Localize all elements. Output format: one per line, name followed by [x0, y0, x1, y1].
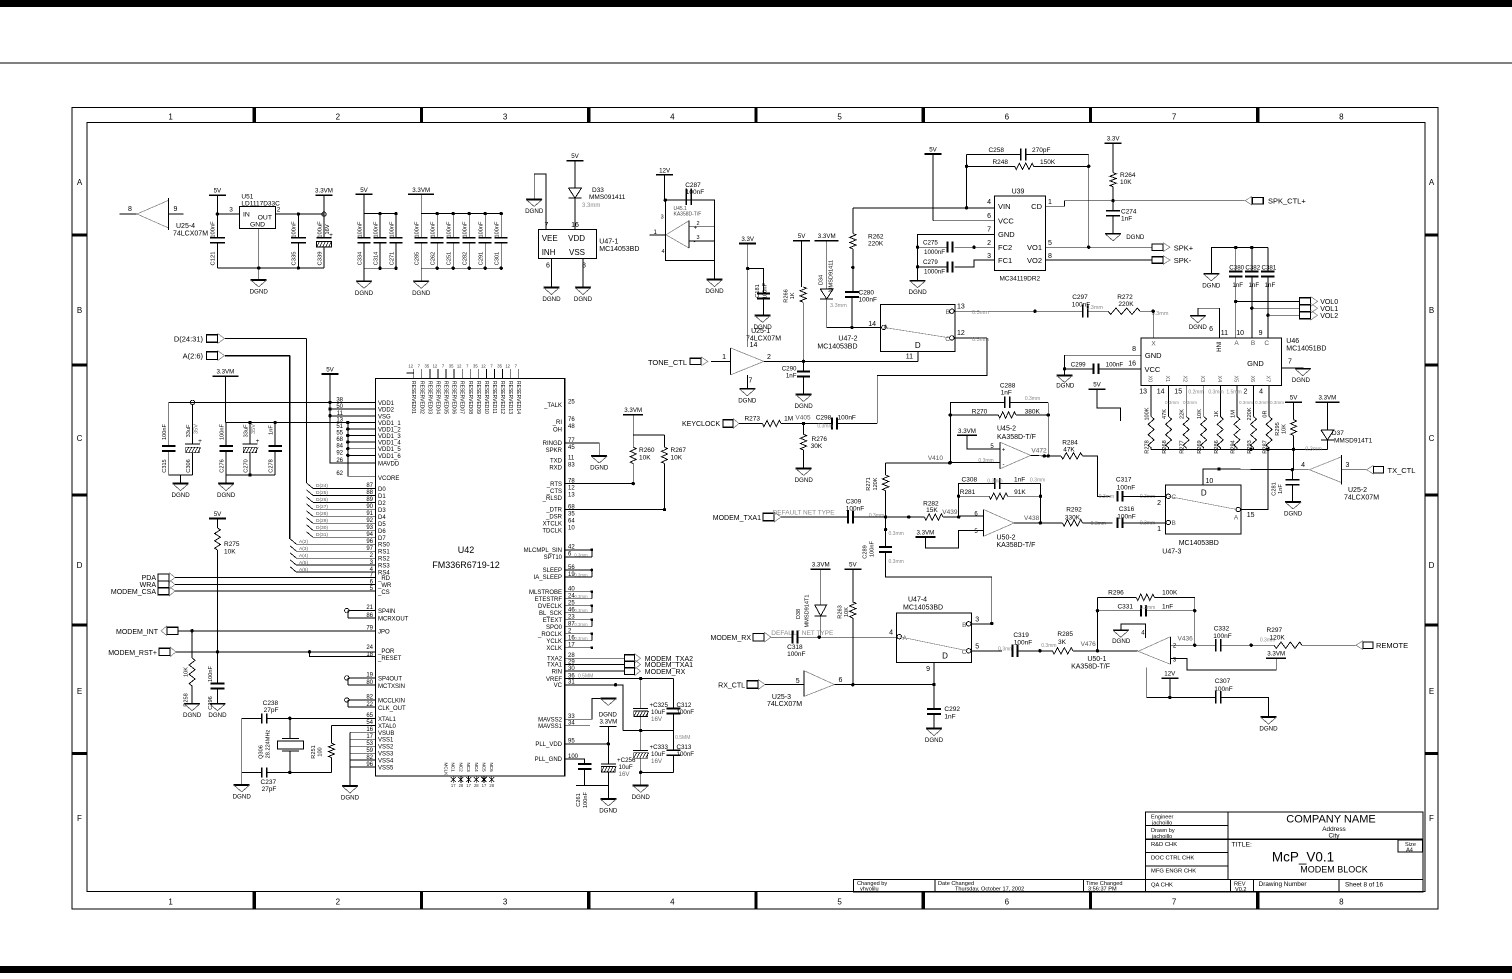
svg-text:3.3VM: 3.3VM: [412, 187, 430, 194]
svg-text:A(3): A(3): [299, 546, 308, 552]
wire: [1267, 315, 1269, 338]
svg-text:VO2: VO2: [1027, 256, 1042, 265]
svg-text:DGND: DGND: [574, 296, 593, 303]
svg-text:270pF: 270pF: [1032, 147, 1050, 154]
svg-text:VCORE: VCORE: [378, 476, 399, 482]
svg-text:R269: R269: [1197, 440, 1203, 453]
svg-text:C271: C271: [390, 252, 396, 265]
svg-text:1nF: 1nF: [786, 373, 797, 380]
svg-text:GND: GND: [1247, 359, 1264, 368]
svg-text:3.3V: 3.3V: [741, 236, 755, 243]
power 5V (R266): [793, 233, 810, 287]
resistor R269 10K: [1197, 386, 1207, 454]
net A(2:6): [183, 351, 290, 539]
svg-text:RESERVED05: RESERVED05: [443, 381, 449, 414]
crystal Q306 28.224MHz: [259, 718, 304, 772]
wire: [1171, 636, 1216, 646]
svg-text:U47-3: U47-3: [1162, 548, 1181, 555]
svg-text:C334: C334: [358, 252, 364, 265]
U42 right stub pins: [524, 545, 594, 652]
wire: [1045, 259, 1152, 261]
svg-text:86: 86: [366, 613, 373, 619]
svg-text:R275: R275: [224, 541, 240, 548]
modem IC U42 FM336R6719-12: [376, 379, 565, 777]
svg-text:1nF: 1nF: [1121, 216, 1132, 223]
svg-text:2: 2: [336, 898, 341, 907]
capacitor C251: [447, 212, 460, 270]
svg-text:C289: C289: [863, 545, 869, 558]
svg-text:33: 33: [568, 714, 575, 720]
wire: [535, 739, 610, 748]
diode D34 MMSD91411: [819, 260, 881, 329]
wire: [275, 207, 324, 215]
svg-text:DGND: DGND: [183, 712, 202, 719]
svg-text:100nF: 100nF: [686, 189, 704, 196]
svg-text:R278: R278: [1145, 440, 1151, 453]
svg-text:C297: C297: [1072, 294, 1088, 301]
wire: [565, 443, 600, 456]
svg-text:D38: D38: [796, 609, 802, 619]
svg-text:Drawing Number: Drawing Number: [1259, 881, 1308, 888]
capacitor C382 1nF: [1245, 246, 1261, 338]
svg-text:DGND: DGND: [1259, 726, 1278, 733]
svg-text:SPK_CTL+: SPK_CTL+: [1268, 197, 1306, 206]
svg-text:DGND: DGND: [1126, 234, 1145, 241]
U42 RESET stub: [310, 652, 402, 662]
svg-text:C331: C331: [1117, 604, 1133, 611]
svg-text:35: 35: [425, 364, 430, 369]
ground DGND (U47-1 pin7): [525, 200, 544, 216]
ground DGND (C296): [208, 704, 227, 720]
diode D37 MMSD914T1: [1305, 430, 1372, 453]
svg-text:11: 11: [568, 455, 575, 461]
svg-text:DGND: DGND: [599, 808, 618, 815]
svg-text:C316: C316: [1119, 506, 1135, 513]
svg-text:X6: X6: [1249, 376, 1255, 383]
svg-text:V476: V476: [1081, 641, 1097, 648]
svg-text:100nF: 100nF: [390, 221, 396, 237]
analog mux U46 MC14051BD: [1128, 338, 1326, 386]
svg-text:VSS5: VSS5: [378, 766, 394, 772]
svg-text:6: 6: [1005, 113, 1010, 122]
wire: [1252, 307, 1300, 309]
svg-text:C287: C287: [685, 182, 701, 189]
wire: [853, 206, 995, 209]
svg-text:51: 51: [336, 424, 343, 430]
svg-text:+: +: [256, 438, 260, 445]
svg-text:RESERVED02: RESERVED02: [418, 381, 424, 414]
svg-text:0.3mm: 0.3mm: [1091, 521, 1106, 527]
svg-text:C121: C121: [211, 252, 217, 266]
capacitor C289 100nF: [863, 517, 994, 625]
svg-text:9: 9: [926, 666, 930, 673]
wire: [552, 666, 625, 675]
capacitor C276 100nF: [219, 423, 233, 476]
svg-text:MC14053BD: MC14053BD: [817, 344, 857, 351]
svg-text:TXD: TXD: [550, 459, 563, 465]
svg-text:SP4IN: SP4IN: [378, 609, 395, 615]
svg-text:U25-3: U25-3: [772, 694, 791, 701]
power 5V (bank1): [356, 187, 373, 214]
net TONE_CTL: [648, 357, 730, 367]
svg-text:SPK-: SPK-: [1174, 256, 1192, 265]
svg-text:100nF: 100nF: [870, 540, 876, 556]
svg-text:R263: R263: [838, 605, 844, 618]
svg-text:47K: 47K: [1063, 447, 1075, 454]
capacitor C262: [431, 212, 444, 270]
svg-text:80: 80: [366, 680, 373, 686]
svg-text:5V: 5V: [1290, 395, 1298, 402]
svg-text:DEFAULT NET TYPE: DEFAULT NET TYPE: [771, 630, 834, 637]
wire: [421, 214, 501, 282]
svg-text:X0: X0: [1147, 376, 1153, 383]
svg-text:TONE_CTL: TONE_CTL: [648, 358, 687, 367]
svg-text:R284: R284: [1062, 439, 1078, 446]
power 3.3VM (U50-1 +in): [1266, 651, 1286, 659]
svg-text:_RLSD: _RLSD: [542, 496, 563, 502]
ground DGND (U46 pin7): [1292, 369, 1311, 384]
svg-text:33uF: 33uF: [244, 424, 250, 437]
svg-text:U25-1: U25-1: [751, 328, 770, 335]
svg-text:COMPANY NAME: COMPANY NAME: [1286, 814, 1375, 826]
svg-text:WRA: WRA: [140, 582, 157, 589]
svg-text:RS0: RS0: [378, 543, 390, 549]
ground DGND (RINGD): [590, 456, 609, 472]
svg-text:1nF: 1nF: [1162, 604, 1173, 611]
svg-text:RESERVED09: RESERVED09: [475, 381, 481, 414]
net MODEM_RX: [711, 630, 834, 642]
svg-text:_RESET: _RESET: [377, 656, 402, 662]
capacitor C314: [374, 212, 387, 270]
svg-text:47K: 47K: [1162, 409, 1168, 419]
svg-text:DGND: DGND: [412, 290, 431, 297]
svg-text:74LCX07M: 74LCX07M: [746, 336, 781, 343]
power 3.3VM (U45-2): [957, 428, 1000, 450]
svg-text:48: 48: [568, 424, 575, 430]
svg-text:GND: GND: [998, 230, 1015, 239]
svg-text:22K: 22K: [1180, 409, 1186, 419]
ground DGND (bank2): [412, 281, 431, 297]
svg-text:NC4: NC4: [474, 763, 479, 773]
svg-text:R264: R264: [1120, 172, 1136, 179]
svg-text:-: -: [1003, 462, 1005, 468]
net SPK+: [1152, 243, 1194, 253]
svg-text:2: 2: [1157, 500, 1161, 507]
svg-text:OH: OH: [553, 428, 562, 434]
svg-text:C: C: [1429, 434, 1435, 443]
svg-text:X1: X1: [1164, 376, 1170, 383]
svg-text:34: 34: [568, 721, 575, 727]
svg-text:0R: 0R: [1263, 410, 1269, 417]
svg-text:RINGD: RINGD: [543, 441, 563, 447]
svg-text:C291: C291: [479, 252, 485, 265]
svg-text:100nF: 100nF: [1214, 686, 1232, 693]
svg-text:3.3VM: 3.3VM: [1267, 651, 1285, 658]
svg-text:C237: C237: [261, 779, 277, 786]
svg-text:VO1: VO1: [1027, 243, 1042, 252]
svg-text:0.5MM: 0.5MM: [675, 735, 690, 741]
svg-text:VDD: VDD: [568, 234, 585, 243]
svg-text:330K: 330K: [1065, 515, 1081, 522]
svg-text:100nF: 100nF: [358, 221, 364, 237]
capacitor C282: [463, 212, 476, 270]
svg-text:10K: 10K: [844, 607, 850, 617]
svg-text:R292: R292: [1066, 507, 1082, 514]
svg-text:5V: 5V: [214, 188, 222, 195]
capacitor C299 100nF: [1063, 362, 1141, 375]
capacitor C331 1nF: [1097, 604, 1194, 617]
svg-text:C306: C306: [186, 459, 192, 472]
svg-text:0.3mm: 0.3mm: [889, 531, 904, 537]
svg-text:D(26): D(26): [316, 497, 328, 503]
svg-text:3: 3: [987, 253, 991, 260]
svg-text:5V: 5V: [360, 187, 368, 194]
svg-text:100nF: 100nF: [859, 297, 877, 304]
svg-text:82: 82: [366, 695, 373, 701]
power 3.3V (R264): [1105, 136, 1122, 173]
svg-text:NC5: NC5: [482, 763, 487, 773]
resistor R251 100: [311, 725, 335, 772]
svg-text:17: 17: [466, 783, 471, 788]
svg-text:15: 15: [1247, 512, 1255, 519]
svg-text:1K: 1K: [790, 292, 796, 299]
svg-text:RS2: RS2: [378, 557, 390, 563]
svg-text:5V: 5V: [326, 367, 334, 374]
svg-text:V436: V436: [1178, 636, 1194, 643]
svg-text:12V: 12V: [659, 167, 671, 174]
svg-text:C317: C317: [1116, 477, 1132, 484]
power 3.3V (C181): [739, 236, 756, 269]
svg-text:V405: V405: [795, 415, 811, 422]
power 12V (U45-1): [656, 167, 673, 200]
svg-text:C292: C292: [944, 706, 960, 713]
svg-text:15K: 15K: [926, 507, 938, 514]
svg-text:R273: R273: [744, 415, 760, 422]
svg-text:C332: C332: [1214, 626, 1230, 633]
wire: [551, 259, 553, 288]
title block company: [1286, 814, 1375, 840]
diode D38 MMSD914T1: [796, 595, 827, 638]
svg-text:RESERVED10: RESERVED10: [483, 381, 489, 414]
svg-text:C381: C381: [1262, 265, 1277, 272]
ground DGND (U45-1): [705, 280, 724, 296]
svg-text:RX_CTL: RX_CTL: [718, 682, 745, 689]
U42 reserved pins: [406, 364, 521, 415]
capacitor C258 270pF: [967, 147, 1089, 160]
wire: [933, 662, 935, 709]
svg-text:0.3mm: 0.3mm: [1099, 494, 1114, 500]
svg-text:MMSD914T1: MMSD914T1: [1334, 438, 1373, 445]
wire: [949, 402, 1005, 464]
capacitor C380 1nF: [1229, 246, 1245, 338]
svg-text:DGND: DGND: [208, 712, 227, 719]
svg-text:YCLK: YCLK: [546, 639, 562, 645]
svg-text:C238: C238: [263, 700, 279, 707]
svg-text:0.3mm: 0.3mm: [1140, 605, 1155, 611]
svg-text:VREF: VREF: [546, 677, 562, 683]
net PDA: [142, 572, 391, 582]
capacitor C334: [358, 214, 371, 269]
svg-text:SPK+: SPK+: [1174, 243, 1194, 252]
svg-text:RS1: RS1: [378, 550, 390, 556]
svg-text:3: 3: [503, 113, 508, 122]
ground DGND (R276): [795, 469, 814, 485]
svg-text:MCRXOUT: MCRXOUT: [378, 617, 409, 623]
svg-text:INH: INH: [1215, 342, 1221, 352]
svg-text:KA358D-T/F: KA358D-T/F: [997, 542, 1036, 549]
wire: [332, 724, 376, 726]
net KEYCLOCK: [682, 418, 762, 428]
svg-text:1: 1: [722, 354, 726, 361]
svg-text:+: +: [329, 232, 333, 239]
wire: [547, 659, 625, 668]
resistor R262 220K: [850, 208, 884, 292]
svg-text:RESERVED13: RESERVED13: [507, 381, 513, 414]
svg-text:B: B: [1251, 340, 1255, 347]
regulator U51 LD1117D33C: [240, 193, 280, 228]
svg-text:100K: 100K: [1162, 590, 1178, 597]
svg-text:D: D: [77, 561, 83, 570]
capacitor C281 1nF: [1272, 470, 1300, 502]
svg-text:380K: 380K: [1025, 408, 1041, 415]
capacitor C271: [390, 212, 403, 270]
svg-text:10K: 10K: [1282, 424, 1288, 434]
wire: [1251, 308, 1253, 338]
svg-text:MCLK: MCLK: [444, 763, 449, 777]
svg-text:100nF: 100nF: [479, 221, 485, 237]
ground DGND (U51): [250, 266, 269, 295]
svg-text:DGND: DGND: [1112, 638, 1131, 645]
svg-text:8: 8: [1048, 253, 1052, 260]
svg-text:3.3mm: 3.3mm: [582, 203, 600, 209]
ground DGND (U42 VSS): [341, 786, 360, 802]
capacitor C278 1nF: [268, 421, 282, 475]
svg-text:28: 28: [459, 783, 464, 788]
svg-text:2: 2: [1244, 389, 1248, 396]
svg-text:92: 92: [366, 518, 373, 524]
svg-text:C290: C290: [782, 366, 797, 373]
svg-text:0.3mm: 0.3mm: [1270, 400, 1284, 405]
net RX_CTL: [718, 679, 804, 689]
svg-text:R277: R277: [1180, 440, 1186, 453]
resistor R263 10K: [838, 602, 857, 687]
svg-text:3.3VM: 3.3VM: [624, 407, 642, 414]
svg-text:35: 35: [449, 364, 454, 369]
net MODEM_RX out: [625, 666, 686, 675]
svg-text:A: A: [1429, 178, 1435, 187]
svg-text:C261: C261: [576, 793, 582, 806]
svg-text:MC14053BD: MC14053BD: [1179, 540, 1219, 547]
svg-text:MFG ENGR CHK: MFG ENGR CHK: [1151, 868, 1196, 874]
svg-text:XTAL1: XTAL1: [378, 717, 397, 723]
U42 SP4IN stub: [345, 605, 409, 623]
svg-text:R295: R295: [1275, 422, 1281, 435]
net TX_CTL: [1367, 465, 1416, 475]
svg-text:3.3V: 3.3V: [1107, 136, 1121, 143]
svg-text:C278: C278: [269, 459, 275, 472]
svg-text:INH: INH: [542, 248, 556, 257]
svg-text:R248: R248: [992, 159, 1008, 166]
svg-text:0.3mm: 0.3mm: [972, 310, 989, 316]
svg-text:NC2: NC2: [458, 763, 463, 773]
power 5V (U42 VDD): [322, 367, 376, 464]
svg-text:E: E: [1429, 687, 1434, 696]
svg-text:DGND: DGND: [542, 296, 561, 303]
svg-text:V472: V472: [1031, 448, 1047, 455]
svg-text:DGND: DGND: [705, 288, 724, 295]
svg-text:B: B: [962, 622, 966, 629]
svg-text:DGND: DGND: [171, 492, 190, 499]
svg-text:B: B: [1172, 520, 1176, 527]
svg-text:IN: IN: [243, 212, 250, 219]
svg-text:RESERVED01: RESERVED01: [410, 381, 416, 414]
wire: [547, 653, 625, 662]
svg-text:DGND: DGND: [355, 290, 374, 297]
svg-text:+: +: [198, 438, 202, 445]
svg-text:C288: C288: [1000, 382, 1016, 389]
svg-text:X5: X5: [1232, 376, 1238, 383]
svg-text:74LCX07M: 74LCX07M: [173, 231, 208, 238]
svg-text:DGND: DGND: [1202, 282, 1221, 289]
svg-text:XTAL0: XTAL0: [378, 724, 397, 730]
svg-text:DGND: DGND: [1056, 383, 1075, 390]
svg-text:3:56:37 PM: 3:56:37 PM: [1088, 887, 1117, 893]
svg-text:jachoillo: jachoillo: [1151, 834, 1172, 840]
svg-text:KA358D-T/F: KA358D-T/F: [674, 212, 702, 218]
wire: [746, 354, 748, 361]
power 3.3VM (D38): [811, 562, 831, 605]
svg-text:100K: 100K: [1145, 407, 1151, 420]
svg-text:4: 4: [670, 898, 675, 907]
svg-text:E: E: [77, 687, 82, 696]
frame outer border: [72, 108, 1438, 910]
svg-text:FM336R6719-12: FM336R6719-12: [432, 560, 500, 570]
svg-text:7: 7: [987, 227, 991, 234]
svg-text:U51: U51: [241, 193, 253, 200]
svg-text:V410: V410: [928, 455, 944, 462]
svg-text:27pF: 27pF: [262, 786, 277, 793]
svg-text:10: 10: [1236, 330, 1244, 337]
wire: [955, 330, 989, 343]
power 5V (R263): [844, 562, 861, 602]
svg-text:VC: VC: [554, 683, 563, 689]
svg-text:0.2mm: 0.2mm: [1188, 390, 1203, 396]
svg-text:U45-2: U45-2: [997, 425, 1016, 432]
svg-text:55: 55: [336, 431, 343, 437]
svg-text:TITLE:: TITLE:: [1232, 842, 1253, 849]
svg-text:10K: 10K: [671, 455, 683, 462]
svg-text:3: 3: [696, 235, 699, 241]
svg-text:VDD1_4: VDD1_4: [378, 441, 401, 447]
svg-text:DGND: DGND: [925, 737, 944, 744]
svg-text:1nF: 1nF: [269, 425, 275, 435]
ground DGND (C292): [925, 729, 944, 745]
svg-text:1: 1: [1157, 526, 1161, 533]
svg-text:_RI: _RI: [552, 420, 563, 426]
svg-text:1nF: 1nF: [1014, 476, 1025, 483]
svg-text:4: 4: [987, 199, 991, 206]
svg-text:31: 31: [568, 680, 575, 686]
svg-text:3.3VM: 3.3VM: [916, 530, 934, 537]
svg-text:3.3VM: 3.3VM: [315, 188, 333, 195]
svg-text:CD: CD: [1031, 202, 1042, 211]
svg-text:A: A: [1234, 340, 1239, 347]
op-amp U45-1 box: [664, 199, 715, 261]
svg-text:PDA: PDA: [142, 575, 157, 582]
svg-text:4: 4: [1301, 462, 1305, 469]
svg-text:C280: C280: [859, 290, 875, 297]
svg-text:17: 17: [451, 783, 456, 788]
